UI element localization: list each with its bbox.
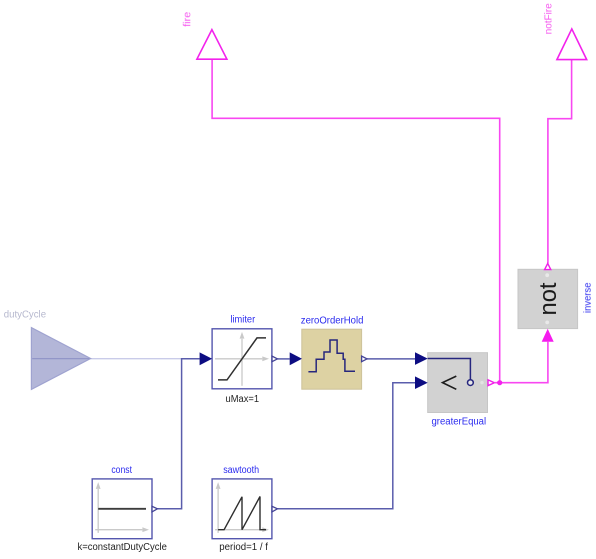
svg-text:dutyCycle: dutyCycle bbox=[4, 310, 47, 321]
svg-text:period=1 / f: period=1 / f bbox=[219, 542, 268, 553]
svg-text:k=constantDutyCycle: k=constantDutyCycle bbox=[77, 542, 167, 553]
svg-text:zeroOrderHold: zeroOrderHold bbox=[301, 315, 364, 326]
svg-text:limiter: limiter bbox=[230, 315, 255, 326]
svg-text:uMax=1: uMax=1 bbox=[226, 394, 260, 405]
svg-text:greaterEqual: greaterEqual bbox=[432, 417, 487, 428]
svg-text:fire: fire bbox=[182, 11, 193, 27]
svg-text:notFire: notFire bbox=[544, 3, 555, 34]
svg-text:not: not bbox=[535, 282, 562, 315]
svg-text:inverse: inverse bbox=[583, 282, 594, 313]
svg-text:sawtooth: sawtooth bbox=[223, 465, 259, 476]
svg-text:const: const bbox=[111, 465, 132, 476]
